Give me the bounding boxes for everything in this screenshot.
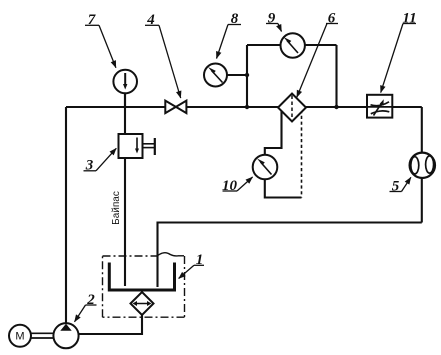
svg-text:3: 3 [85, 158, 94, 174]
svg-text:Байпас: Байпас [111, 191, 122, 225]
label leader 3 [84, 148, 117, 171]
svg-text:M: M [15, 331, 24, 343]
pump 2 [53, 323, 78, 348]
wire loop top [247, 44, 337, 46]
svg-text:9: 9 [268, 11, 276, 27]
wire bottom return line [158, 223, 422, 288]
node junction dot at gauge 8 stub [245, 73, 249, 77]
wire main supply line [66, 106, 422, 108]
wire loop left vertical [246, 45, 248, 107]
heat exchanger (diamond under tank) [131, 292, 154, 315]
label leader 6 [297, 24, 338, 98]
pressure gauge 7 [113, 70, 137, 94]
label leader 4 [145, 25, 181, 98]
svg-text:7: 7 [88, 12, 96, 28]
wire drain left branch [265, 111, 282, 157]
tank unit boundary 1 (dash-dot) [103, 253, 185, 318]
svg-text:2: 2 [86, 292, 95, 308]
svg-text:11: 11 [402, 11, 416, 27]
label leader 5 [390, 177, 411, 191]
valve 4 [165, 101, 186, 114]
label leader 9 [266, 24, 282, 32]
wire gauge 7 stem [124, 93, 126, 107]
wire bypass line (through box 3 down to tank) [124, 92, 126, 287]
svg-text:10: 10 [222, 178, 238, 194]
label leader 1 [179, 265, 204, 278]
wire pump outlet to heat exchanger [79, 315, 142, 335]
svg-text:1: 1 [196, 252, 204, 268]
wire left vertical from pump to main line [65, 107, 67, 324]
filter 6 [278, 94, 306, 122]
label leader 10 [223, 177, 253, 191]
throttle valve 11 [367, 95, 392, 118]
wire right vertical through flow meter 5 [421, 107, 423, 223]
node junction loop right on main [334, 105, 338, 109]
svg-text:5: 5 [392, 178, 400, 194]
pressure gauge 9 [281, 33, 305, 57]
tank (open reservoir) [109, 263, 174, 291]
svg-text:6: 6 [328, 11, 336, 27]
label leader 7 [85, 25, 116, 67]
node junction loop left on main [245, 105, 249, 109]
svg-text:8: 8 [231, 11, 239, 27]
wire gauge 8 stub [227, 74, 247, 76]
label leader 11 [381, 24, 416, 93]
relief valve 3 [119, 134, 155, 158]
motor M [9, 325, 54, 347]
pressure gauge 10 [253, 155, 278, 180]
svg-text:4: 4 [146, 12, 155, 28]
wire drain below gauge 10 [265, 179, 302, 198]
label leader 8 [217, 25, 242, 59]
flow meter 5 [410, 153, 435, 178]
pressure gauge 8 [204, 64, 227, 87]
wire loop right vertical [335, 45, 337, 107]
wire drain right branch (dashed) [301, 110, 303, 198]
label leader 2 [75, 305, 97, 322]
